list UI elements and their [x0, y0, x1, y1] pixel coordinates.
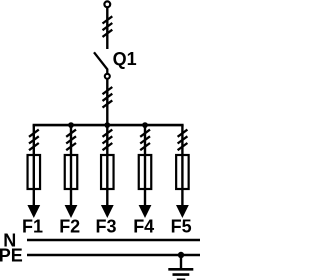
- load arrow F3: [101, 205, 114, 218]
- wire branch F1: [33, 125, 35, 207]
- svg-text:F1: F1: [22, 217, 43, 237]
- wire earth stem: [180, 255, 182, 269]
- svg-text:PE: PE: [0, 246, 23, 266]
- wire branch F4: [144, 125, 146, 207]
- switch Q1 blade: [94, 52, 107, 73]
- wire incoming feeder: [106, 7, 108, 49]
- 3-conductor slash marks F3: [103, 130, 113, 151]
- fuse F4: [139, 155, 152, 189]
- switch Q1 contact circle: [105, 74, 110, 79]
- load arrow F5: [176, 205, 189, 218]
- fuse F1: [28, 155, 41, 189]
- wire protective earth PE bus: [27, 254, 200, 257]
- wire branch F5: [181, 125, 183, 207]
- junction dot PE to earth: [178, 252, 184, 258]
- svg-text:F2: F2: [59, 217, 80, 237]
- 3-conductor slash marks F1: [29, 130, 39, 151]
- supply terminal: [104, 1, 110, 7]
- ground: [168, 269, 193, 280]
- junction dot incoming: [104, 122, 110, 128]
- fuse F3: [101, 155, 114, 189]
- wire neutral N bus: [27, 239, 200, 242]
- 3-conductor slash marks (below switch): [103, 87, 113, 108]
- wire switch to busbar: [106, 80, 108, 127]
- busbar: [33, 124, 184, 127]
- load arrow F2: [65, 205, 78, 218]
- fuse F5: [176, 155, 189, 189]
- load arrow F1: [27, 205, 40, 218]
- svg-text:F4: F4: [133, 217, 154, 237]
- load arrow F4: [139, 205, 152, 218]
- wire branch F3: [106, 125, 108, 207]
- fuse F2: [65, 155, 78, 189]
- junction dot F2: [68, 122, 74, 128]
- svg-text:Q1: Q1: [113, 49, 137, 69]
- 3-conductor slash marks F2: [66, 130, 76, 151]
- 3-conductor slash marks (top): [103, 16, 113, 37]
- svg-text:F3: F3: [95, 217, 116, 237]
- junction dot F4: [142, 122, 148, 128]
- wire branch F2: [70, 125, 72, 207]
- 3-conductor slash marks F5: [178, 130, 188, 151]
- svg-text:F5: F5: [171, 217, 192, 237]
- 3-conductor slash marks F4: [140, 130, 150, 151]
